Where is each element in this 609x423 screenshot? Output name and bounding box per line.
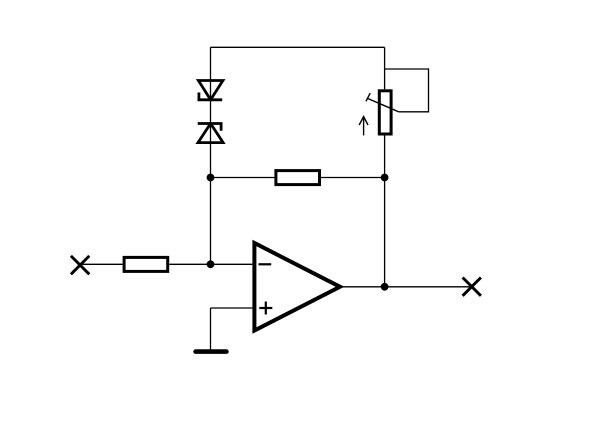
wire left vertical (top wire down through diodes to feedback node): [210, 47, 212, 177]
zener diode D1 (top, cathode down): [198, 81, 223, 100]
wire top horizontal: [211, 46, 385, 48]
ground: [196, 349, 227, 354]
resistor R1 (input): [124, 257, 168, 271]
wire left vertical (feedback node down to inverting input node): [210, 178, 212, 265]
wire output: [340, 286, 472, 288]
op-amp plus sign: [259, 302, 272, 315]
wire feedback horizontal left: [211, 177, 275, 179]
zener diode D2 (bottom, cathode up): [198, 124, 223, 143]
wire potentiometer wiper loop: [385, 69, 429, 112]
wire input left: [80, 263, 123, 265]
wire right vertical (potentiometer to output node): [384, 135, 386, 287]
potentiometer P1 body: [379, 91, 391, 134]
op-amp U1: [254, 243, 340, 331]
wire right vertical (top wire to potentiometer): [384, 47, 386, 89]
potentiometer wiper end tick: [366, 93, 370, 101]
potentiometer wiper diagonal: [367, 98, 399, 112]
wire non-inverting input horizontal: [211, 307, 253, 309]
terminal X (input): [71, 256, 89, 274]
wire non-inverting input vertical to ground: [210, 308, 212, 350]
node D (output node): [381, 283, 389, 291]
arrow (adjustment mark): [359, 117, 368, 136]
wire feedback horizontal right: [321, 177, 385, 179]
wire input right: [169, 263, 252, 265]
op-amp minus sign: [259, 263, 272, 265]
node B (right feedback node): [381, 174, 389, 182]
terminal X (output): [463, 278, 481, 296]
node C (inverting input node): [207, 260, 215, 268]
resistor R2 (feedback): [276, 171, 320, 185]
node A (left feedback node): [207, 174, 215, 182]
